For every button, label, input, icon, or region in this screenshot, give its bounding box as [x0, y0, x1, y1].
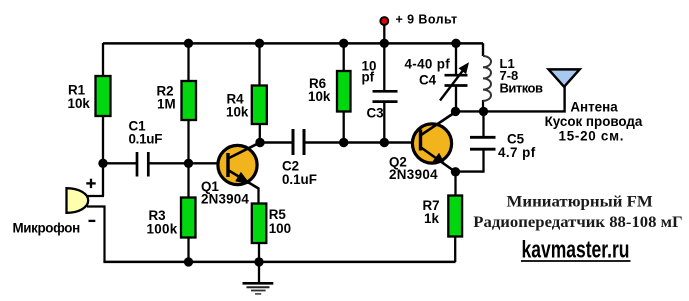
svg-text:10k: 10k	[226, 105, 249, 120]
node R4 top	[255, 39, 264, 48]
svg-text:C4: C4	[419, 73, 437, 88]
node Q1 base	[184, 159, 193, 168]
svg-text:100k: 100k	[147, 222, 178, 237]
wire R5 bottom	[258, 242, 260, 262]
transistor Q1	[218, 143, 260, 205]
capacitor C2	[293, 129, 304, 155]
svg-text:Кусок провода: Кусок провода	[545, 114, 643, 129]
svg-text:10k: 10k	[308, 89, 331, 104]
svg-text:R5: R5	[269, 207, 287, 222]
wire L1 top corner	[482, 43, 484, 56]
wire R2 top	[187, 43, 189, 82]
wire antenna feed line	[484, 86, 565, 111]
capacitor C4 (variable)	[440, 62, 469, 100]
capacitor C1	[137, 152, 148, 177]
svg-text:4-40 pf: 4-40 pf	[405, 56, 451, 71]
svg-text:1M: 1M	[157, 96, 176, 111]
kavmaster underline	[521, 260, 631, 262]
node C4 top	[451, 39, 460, 48]
antenna	[549, 69, 580, 86]
wire R2 bottom to base node	[187, 119, 189, 163]
wire R3 top	[187, 163, 189, 198]
resistor R3	[181, 198, 196, 238]
wire C2 left segment	[260, 141, 292, 143]
wire R6 top	[343, 43, 345, 71]
wire C2 right segment	[304, 141, 344, 143]
svg-text:+ 9 Вольт: + 9 Вольт	[396, 13, 458, 27]
node Q2 collector	[451, 107, 460, 116]
svg-text:2N3904: 2N3904	[389, 167, 438, 182]
wire C3 bottom lead	[383, 102, 385, 143]
resistor R7	[448, 196, 462, 237]
wire emitter node line	[456, 170, 484, 172]
wire C4 bottom lead	[455, 86, 457, 112]
node junction dots	[98, 39, 488, 267]
mic plus sign	[86, 179, 95, 188]
svg-text:1k: 1k	[424, 211, 439, 226]
svg-text:Миниатюрный FM: Миниатюрный FM	[507, 194, 654, 211]
wire R7 bottom	[454, 236, 456, 262]
node L1 bottom	[479, 107, 488, 116]
wire top rail	[103, 42, 483, 45]
resistor R2	[182, 81, 197, 120]
wire battery stub	[383, 25, 385, 43]
wire collector node line	[456, 110, 484, 112]
wire mic minus lead	[87, 207, 105, 263]
svg-text:R3: R3	[149, 208, 166, 223]
wire C1 right segment / Q1 base	[149, 162, 230, 164]
resistor R6	[337, 71, 351, 112]
wire C5 top lead	[482, 112, 484, 138]
svg-text:C3: C3	[367, 105, 384, 120]
svg-text:Радиопередатчик 88-108 мГ: Радиопередатчик 88-108 мГ	[473, 214, 683, 231]
svg-text:4.7 pf: 4.7 pf	[498, 145, 536, 160]
wire C5 bottom lead	[482, 150, 484, 173]
svg-text:pf: pf	[362, 70, 375, 85]
resistor R1	[96, 76, 111, 116]
svg-text:kavmaster.ru: kavmaster.ru	[522, 236, 630, 263]
node R6 bottom	[339, 138, 348, 147]
node R3 bottom	[184, 257, 193, 266]
svg-text:Витков: Витков	[500, 80, 544, 95]
resistor R5	[252, 204, 266, 244]
node ground	[254, 257, 263, 266]
wire C1 left segment	[103, 162, 136, 164]
ground	[243, 262, 274, 294]
transistor Q2	[412, 112, 455, 172]
svg-text:100: 100	[269, 221, 291, 236]
node R6 top	[339, 39, 348, 48]
resistor R4	[252, 86, 267, 125]
node C3 bottom	[380, 138, 389, 147]
node Q1 collector	[255, 138, 264, 147]
svg-text:2N3904: 2N3904	[201, 191, 249, 206]
svg-text:0.1uF: 0.1uF	[282, 172, 317, 187]
microphone	[67, 188, 89, 213]
node R2 top	[184, 39, 193, 48]
wire Q2 base	[384, 141, 421, 143]
wire R4 bottom	[259, 123, 261, 143]
svg-text:Антена: Антена	[570, 99, 618, 114]
node Q2 emitter	[451, 167, 460, 176]
inductor L1 coil	[483, 56, 491, 101]
svg-text:Микрофон: Микрофон	[13, 220, 81, 235]
node C1 left	[98, 159, 107, 168]
wire R7 top	[454, 172, 456, 196]
wire left column upper	[102, 43, 104, 77]
capacitor C5	[470, 137, 496, 149]
wire mic plus lead	[86, 195, 104, 197]
wire R3 bottom	[187, 237, 189, 262]
svg-text:15-20 см.: 15-20 см.	[559, 128, 624, 143]
wire R4 top	[258, 43, 260, 86]
wire L1 bottom lead	[482, 100, 484, 112]
wire R6 bottom	[343, 111, 345, 143]
capacitor C3	[373, 91, 398, 101]
battery plus terminal	[380, 17, 388, 25]
node battery	[380, 39, 389, 48]
wire left column lower (R1 bottom to mic plus)	[102, 115, 104, 196]
wire bottom rail	[103, 261, 455, 264]
wire C3 top lead	[383, 43, 385, 91]
wire node to C3 bottom	[344, 141, 385, 143]
svg-text:0.1uF: 0.1uF	[129, 131, 163, 146]
wire C4 top lead	[455, 43, 457, 75]
mic minus sign	[89, 220, 96, 222]
svg-text:10k: 10k	[68, 96, 91, 111]
